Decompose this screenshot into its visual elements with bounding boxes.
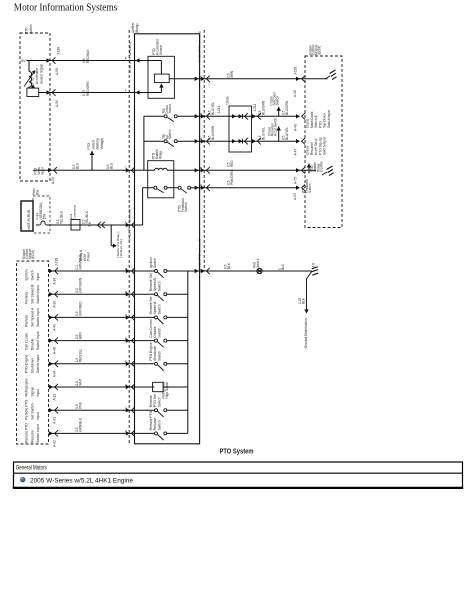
svg-text:C: C <box>125 166 127 170</box>
svg-text:Set Speed A: Set Speed A <box>30 307 34 327</box>
svg-text:Ignition: Ignition <box>25 269 29 280</box>
svg-text:BLU: BLU <box>76 162 80 169</box>
svg-text:Input: Input <box>36 389 40 397</box>
svg-text:J-218: J-218 <box>294 67 298 75</box>
svg-text:BLU/YEL: BLU/YEL <box>262 127 266 140</box>
svg-text:Connection: Connection <box>72 204 76 220</box>
svg-text:General Motors: General Motors <box>16 465 47 472</box>
svg-text:H-122 (PTO harness 1): H-122 (PTO harness 1) <box>128 209 132 240</box>
svg-text:Remote PTO: Remote PTO <box>25 399 29 419</box>
svg-text:Switch Input: Switch Input <box>36 424 40 443</box>
svg-text:BRN: BRN <box>79 332 83 339</box>
svg-text:Sensor: Sensor <box>159 44 163 55</box>
svg-text:5V: 5V <box>21 59 26 63</box>
svg-text:BLK: BLK <box>281 263 285 270</box>
svg-text:PTO: PTO <box>25 27 29 34</box>
svg-text:(Body): (Body) <box>135 24 139 33</box>
svg-text:Input: Input <box>36 273 40 281</box>
svg-text:Switch Input: Switch Input <box>36 285 40 304</box>
svg-text:H-122 (PTO harness 2): H-122 (PTO harness 2) <box>128 42 132 73</box>
svg-text:Ground Distribution: Ground Distribution <box>304 318 308 348</box>
svg-text:BLU: BLU <box>110 162 114 169</box>
svg-text:A-91: A-91 <box>53 417 57 424</box>
svg-text:A-34: A-34 <box>55 100 59 107</box>
svg-text:A-94: A-94 <box>53 370 57 377</box>
svg-text:Switch: Switch <box>157 327 161 337</box>
svg-text:BLK: BLK <box>301 297 305 304</box>
svg-text:E: E <box>125 336 127 340</box>
svg-text:Remote: Remote <box>25 315 29 327</box>
svg-text:H: H <box>200 137 202 141</box>
svg-text:BLU/YEL: BLU/YEL <box>285 127 289 140</box>
svg-text:Remote: Remote <box>25 292 29 304</box>
svg-text:Switch: Switch <box>184 202 188 212</box>
svg-text:Switch: Switch <box>29 24 33 34</box>
svg-text:Switch: Switch <box>168 129 172 139</box>
svg-text:Resume: Resume <box>30 430 34 443</box>
svg-text:A-53: A-53 <box>51 177 55 184</box>
svg-text:Switch: Switch <box>157 304 161 314</box>
svg-text:D: D <box>125 290 127 294</box>
svg-text:B: B <box>200 166 202 170</box>
svg-text:Signal: Signal <box>30 387 34 397</box>
svg-text:A-90: A-90 <box>53 301 57 308</box>
svg-text:BLU/GRN: BLU/GRN <box>285 100 289 115</box>
svg-text:Switch Input: Switch Input <box>327 110 331 128</box>
svg-text:Box: Box <box>36 189 40 195</box>
svg-text:Power: Power <box>87 251 91 261</box>
svg-text:Accelerator: Accelerator <box>35 67 39 84</box>
svg-text:J-218: J-218 <box>55 258 59 266</box>
svg-text:Accel Switch: Accel Switch <box>274 118 278 136</box>
svg-text:PNK: PNK <box>79 401 83 408</box>
svg-text:Switch: Switch <box>157 397 161 407</box>
svg-text:Relay: Relay <box>158 151 162 160</box>
svg-text:Cab Cruise: Cab Cruise <box>25 333 29 350</box>
svg-text:2005 W-Series w/5.2L 4HK1 Engi: 2005 W-Series w/5.2L 4HK1 Engine <box>30 477 133 484</box>
svg-text:E: E <box>125 56 127 60</box>
svg-text:PTO Engine: PTO Engine <box>25 355 29 374</box>
svg-text:A-46: A-46 <box>294 124 298 131</box>
svg-text:Refrigerator: Refrigerator <box>25 377 29 396</box>
svg-text:B: B <box>125 267 127 271</box>
svg-text:H-123 (PTO harness 2): H-123 (PTO harness 2) <box>197 31 201 62</box>
svg-text:Set Switch: Set Switch <box>30 403 34 419</box>
svg-text:D: D <box>200 112 202 116</box>
svg-text:[ ECM (A-43) ]: [ ECM (A-43) ] <box>119 239 123 258</box>
svg-text:Switch Input: Switch Input <box>36 355 40 374</box>
svg-text:Control: Control <box>320 161 324 172</box>
svg-text:BLU/GRN: BLU/GRN <box>262 100 266 115</box>
svg-text:Joint 1: Joint 1 <box>256 258 260 268</box>
svg-text:Switch: Switch <box>157 351 161 361</box>
svg-text:Switch: Switch <box>153 258 157 268</box>
svg-text:GRN/BLK: GRN/BLK <box>79 417 83 432</box>
svg-text:F: F <box>125 89 127 93</box>
svg-text:J-211: J-211 <box>217 106 221 114</box>
svg-text:Remote PTO: Remote PTO <box>25 423 29 443</box>
svg-text:Diode: Diode <box>226 96 230 105</box>
svg-text:YEL/BLK: YEL/BLK <box>85 210 89 224</box>
svg-text:(ECM): (ECM) <box>31 250 35 259</box>
svg-text:Input: Input <box>36 412 40 420</box>
svg-text:A-19: A-19 <box>53 394 57 401</box>
svg-text:GRY/GRN: GRY/GRN <box>79 277 83 293</box>
svg-text:Switch: Switch <box>157 420 161 430</box>
svg-text:(ECM): (ECM) <box>318 46 322 55</box>
svg-text:J-218: J-218 <box>57 47 61 55</box>
svg-text:Switch: Switch <box>157 281 161 291</box>
svg-text:Motor Information Systems: Motor Information Systems <box>14 2 118 13</box>
svg-text:BLK: BLK <box>227 262 231 269</box>
svg-text:RED/GRN: RED/GRN <box>86 81 90 96</box>
svg-text:GRY/RED: GRY/RED <box>79 301 83 316</box>
svg-text:PTO System: PTO System <box>220 449 254 456</box>
svg-text:RED/YEL: RED/YEL <box>79 348 83 362</box>
svg-text:Switch: Switch <box>276 96 280 106</box>
svg-text:A-49: A-49 <box>53 324 57 331</box>
svg-text:Sensor Signal: Sensor Signal <box>40 64 44 84</box>
svg-text:A-58: A-58 <box>55 68 59 75</box>
svg-text:F: F <box>125 360 127 364</box>
svg-text:J-211: J-211 <box>253 104 257 112</box>
svg-text:Switch Input: Switch Input <box>36 308 40 327</box>
svg-text:A-75: A-75 <box>294 177 298 184</box>
svg-text:BRN: BRN <box>230 70 234 77</box>
svg-text:Voltage): Voltage) <box>100 138 104 150</box>
svg-text:J-8: J-8 <box>312 263 316 268</box>
svg-text:T-8: T-8 <box>88 222 92 227</box>
svg-text:HOT IN RUN: HOT IN RUN <box>27 209 31 229</box>
svg-text:Shutdown: Shutdown <box>30 358 34 373</box>
svg-text:A-48: A-48 <box>53 347 57 354</box>
svg-text:A-10: A-10 <box>293 90 297 97</box>
svg-text:A-47: A-47 <box>294 149 298 156</box>
svg-text:WHT: WHT <box>79 378 83 385</box>
svg-text:A: A <box>125 221 127 225</box>
svg-text:A: A <box>200 183 202 187</box>
svg-text:Switch: Switch <box>308 183 312 193</box>
svg-text:High Signal: High Signal <box>165 382 169 399</box>
svg-text:A-93: A-93 <box>293 193 297 200</box>
svg-text:RED: RED <box>230 160 234 167</box>
svg-text:BLU/YEL: BLU/YEL <box>211 102 215 115</box>
svg-text:Switch: Switch <box>168 104 172 114</box>
svg-text:Disable: Disable <box>30 339 34 351</box>
svg-text:Switch Input: Switch Input <box>323 137 327 155</box>
svg-text:A-18: A-18 <box>53 278 57 285</box>
svg-text:BLU/GRN: BLU/GRN <box>211 125 215 140</box>
svg-text:YEL/BLK: YEL/BLK <box>60 210 64 224</box>
svg-text:K: K <box>125 429 127 433</box>
svg-text:15A: 15A <box>42 213 46 220</box>
svg-text:PTO: PTO <box>31 77 35 84</box>
svg-text:Switch: Switch <box>30 270 34 280</box>
svg-text:H-123 (PTO harness 2): H-123 (PTO harness 2) <box>197 239 201 270</box>
svg-text:Switch Input: Switch Input <box>36 331 40 350</box>
svg-text:Input: Input <box>41 167 45 174</box>
svg-text:A-92: A-92 <box>53 440 57 447</box>
svg-text:PNK/GRN: PNK/GRN <box>230 170 234 185</box>
svg-text:C: C <box>125 313 127 317</box>
svg-text:Set Speed B: Set Speed B <box>30 284 34 304</box>
svg-text:RED/BLK: RED/BLK <box>86 48 90 63</box>
